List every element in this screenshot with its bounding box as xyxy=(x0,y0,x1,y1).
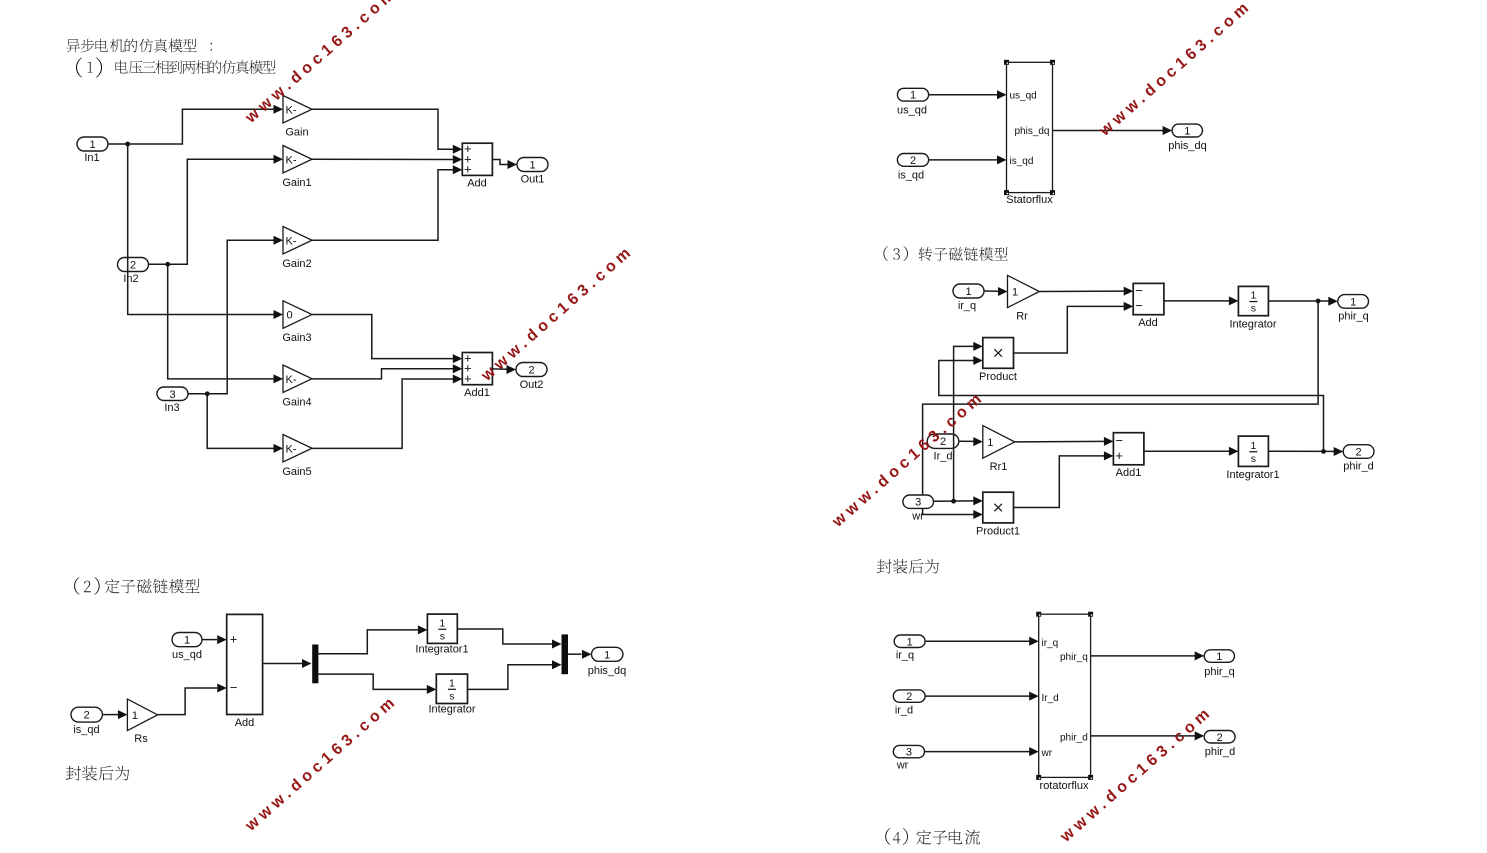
junction In1 xyxy=(125,142,130,147)
svg-text:2: 2 xyxy=(528,365,534,377)
svg-text:Gain4: Gain4 xyxy=(282,397,311,409)
svg-text:2: 2 xyxy=(1217,732,1223,744)
caption after (2) xyxy=(66,766,129,781)
outport Out1 xyxy=(517,158,548,186)
junction phir_d xyxy=(1321,449,1326,454)
wire Gain5 to Add1 xyxy=(312,375,462,449)
watermark bottom left xyxy=(242,692,402,835)
svg-text:Gain: Gain xyxy=(285,127,308,139)
svg-text:−: − xyxy=(230,680,238,695)
svg-text:In1: In1 xyxy=(84,152,99,164)
inport ir_q xyxy=(953,284,984,312)
inport wr xyxy=(903,495,934,523)
svg-text:phir_d: phir_d xyxy=(1060,733,1088,744)
wire In3 to Gain2 xyxy=(188,236,283,394)
svg-text:Integrator1: Integrator1 xyxy=(1226,469,1279,481)
svg-text:wr: wr xyxy=(896,760,909,772)
subsystem Statorflux xyxy=(1004,60,1055,206)
svg-text:Gain3: Gain3 xyxy=(282,332,311,344)
svg-text:us_qd: us_qd xyxy=(172,649,202,661)
svg-text:1: 1 xyxy=(987,437,993,449)
svg-text:Rr1: Rr1 xyxy=(990,461,1008,473)
svg-text:Ir_d: Ir_d xyxy=(1042,693,1059,704)
junction In2 xyxy=(165,262,170,267)
svg-text:1: 1 xyxy=(184,635,190,647)
svg-text:www.doc163.com: www.doc163.com xyxy=(242,692,402,835)
wire Gain1 to Add xyxy=(312,155,462,164)
svg-text:Rr: Rr xyxy=(1016,311,1028,323)
gain Gain5 xyxy=(282,435,312,479)
inport us_qd xyxy=(172,633,202,662)
svg-text:s: s xyxy=(449,690,454,702)
integrator Integrator (stator) xyxy=(428,674,475,715)
caption after (3) xyxy=(877,559,939,574)
svg-text:1: 1 xyxy=(1350,296,1356,308)
svg-text:ir_q: ir_q xyxy=(896,650,914,662)
wire Rr to Add xyxy=(1039,287,1133,296)
sum Add1 (rotor d) xyxy=(1113,433,1144,479)
outport phir_q xyxy=(1338,295,1369,323)
inport ir_q (rotatorflux) xyxy=(894,635,925,662)
gain Gain xyxy=(283,96,312,139)
wire Rs to Add xyxy=(158,684,227,715)
heading (3) xyxy=(883,246,1007,261)
title line 2 xyxy=(76,58,276,78)
wire Add to Demux xyxy=(263,659,312,668)
svg-text:wr: wr xyxy=(1041,748,1053,759)
svg-text:Add: Add xyxy=(235,717,255,729)
svg-text:0: 0 xyxy=(287,310,293,322)
product Product1 xyxy=(976,492,1020,537)
svg-text:+: + xyxy=(1115,448,1123,463)
svg-text:3: 3 xyxy=(169,389,175,401)
wire wr to Product xyxy=(954,342,983,501)
mux bar xyxy=(562,634,569,674)
wire Ir_d to Rr1 xyxy=(959,437,983,446)
svg-text:Out1: Out1 xyxy=(521,174,545,186)
wire Gain4 to Add1 xyxy=(312,364,462,379)
wire rotatorflux to phir_d xyxy=(1091,731,1205,740)
svg-text:Gain2: Gain2 xyxy=(282,258,311,270)
inport In1 xyxy=(77,137,108,164)
svg-text:1: 1 xyxy=(89,139,95,151)
watermark middle right xyxy=(829,388,989,531)
svg-text:1: 1 xyxy=(1216,651,1222,663)
wire In1 to Gain3 xyxy=(128,144,283,319)
svg-text:1: 1 xyxy=(910,90,916,102)
gain Rs xyxy=(127,699,157,745)
wire Gain to Add xyxy=(312,109,462,154)
wire wr to rotatorflux xyxy=(925,747,1039,756)
svg-text:1: 1 xyxy=(449,677,455,689)
wire is_qd to Rs xyxy=(102,710,127,719)
svg-text:+: + xyxy=(464,371,472,386)
sum Add (stator) xyxy=(227,614,263,729)
svg-text:−: − xyxy=(1135,298,1143,313)
svg-text:1: 1 xyxy=(439,617,445,629)
junction In3 xyxy=(205,391,210,396)
wire In1 to Gain xyxy=(108,105,283,144)
wire Statorflux to phis_dq xyxy=(1053,126,1173,135)
sum Add1 xyxy=(462,350,492,399)
product Product xyxy=(979,338,1017,383)
heading (2) xyxy=(74,577,199,595)
svg-text:3: 3 xyxy=(906,747,912,759)
watermark top left xyxy=(242,0,402,127)
svg-text:Rs: Rs xyxy=(134,733,148,745)
inport ir_d (rotatorflux) xyxy=(893,690,925,717)
svg-text:1: 1 xyxy=(1250,440,1256,452)
svg-text:Add: Add xyxy=(1138,317,1158,329)
svg-text:1: 1 xyxy=(132,710,138,722)
svg-text:K-: K- xyxy=(286,374,297,386)
svg-text:1: 1 xyxy=(529,160,535,172)
wire Add1 to Out2 xyxy=(492,365,516,374)
wire Product to Add xyxy=(1014,302,1134,353)
svg-text:Statorflux: Statorflux xyxy=(1006,194,1053,206)
svg-text:1: 1 xyxy=(1250,290,1256,302)
inport is_qd xyxy=(71,707,102,736)
inport Ir_d xyxy=(927,434,959,463)
wire Gain2 to Add xyxy=(312,165,462,240)
integrator Integrator xyxy=(1229,286,1276,330)
wire ir_d to rotatorflux xyxy=(925,692,1039,701)
svg-text:Out2: Out2 xyxy=(520,379,544,391)
watermark top right xyxy=(1096,0,1256,140)
wire In2 to Gain4 xyxy=(168,264,283,383)
svg-text:3: 3 xyxy=(915,497,921,509)
svg-text:2: 2 xyxy=(1356,447,1362,459)
watermark bottom right xyxy=(1057,703,1217,846)
svg-text:2: 2 xyxy=(906,691,912,703)
svg-text:Add: Add xyxy=(467,178,487,190)
svg-text:1: 1 xyxy=(907,636,913,648)
svg-text:wr: wr xyxy=(911,511,924,523)
wire wr to Product1 xyxy=(934,496,983,505)
svg-text:s: s xyxy=(440,630,445,642)
svg-text:is_qd: is_qd xyxy=(73,724,99,736)
heading (4) xyxy=(885,828,980,845)
outport phir_d xyxy=(1343,445,1374,473)
inport wr (rotatorflux) xyxy=(893,745,924,771)
svg-text:2: 2 xyxy=(84,710,90,722)
svg-text:phis_dq: phis_dq xyxy=(1168,140,1207,152)
wire In2 to Gain1 xyxy=(149,155,284,264)
svg-text:1: 1 xyxy=(965,286,971,298)
svg-text:K-: K- xyxy=(286,154,297,166)
svg-text:ir_q: ir_q xyxy=(1042,638,1059,649)
svg-text:www.doc163.com: www.doc163.com xyxy=(1096,0,1256,140)
svg-text:1: 1 xyxy=(1012,287,1018,299)
demux bar xyxy=(312,645,318,684)
wire us_qd to Statorflux xyxy=(929,90,1007,99)
gain Gain3 xyxy=(282,301,312,344)
wire Integrator1 to phir_d xyxy=(1268,447,1343,456)
wire Add1 to Integrator1 xyxy=(1144,447,1239,456)
sum Add xyxy=(462,141,492,189)
wire Add to Out1 xyxy=(492,160,517,170)
svg-text:www.doc163.com: www.doc163.com xyxy=(242,0,402,127)
wire us_qd to Add xyxy=(202,635,227,644)
gain Rr xyxy=(1008,275,1040,322)
wire Integrator1 to Mux xyxy=(457,629,561,649)
wire ir_q to rotatorflux xyxy=(925,637,1039,646)
svg-text:+: + xyxy=(464,162,472,177)
sum Add (rotor q) xyxy=(1133,283,1164,329)
svg-text:Integrator1: Integrator1 xyxy=(415,644,468,656)
svg-text:Gain5: Gain5 xyxy=(282,466,311,478)
title line 1 xyxy=(66,39,212,53)
svg-text:In3: In3 xyxy=(164,402,179,414)
svg-text:In2: In2 xyxy=(123,273,138,285)
wire phir_q feedback to Product1 xyxy=(923,301,1319,519)
wire Gain3 to Add1 xyxy=(312,315,462,364)
wire phir_d feedback to Product xyxy=(939,356,1324,451)
svg-text:us_qd: us_qd xyxy=(897,105,927,117)
svg-text:s: s xyxy=(1251,453,1256,465)
wire In3 to Gain5 xyxy=(207,394,283,453)
svg-text:Ir_d: Ir_d xyxy=(934,451,953,463)
svg-text:phir_q: phir_q xyxy=(1338,311,1369,323)
integrator Integrator1 xyxy=(1226,436,1279,481)
watermark middle xyxy=(478,242,638,385)
svg-text:www.doc163.com: www.doc163.com xyxy=(829,388,989,531)
inport us_qd (statorflux) xyxy=(897,88,929,116)
svg-text:is_qd: is_qd xyxy=(1010,156,1034,167)
junction phir_q xyxy=(1316,299,1321,304)
junction wr xyxy=(951,499,956,504)
svg-text:2: 2 xyxy=(130,260,136,272)
outport phir_d (rotatorflux) xyxy=(1204,731,1235,759)
integrator Integrator1 (stator) xyxy=(415,614,468,655)
wire Demux to Integrator xyxy=(318,674,436,694)
svg-text:1: 1 xyxy=(604,649,610,661)
wire Mux to phis_dq xyxy=(568,650,592,659)
svg-text:+: + xyxy=(230,631,238,646)
svg-text:ir_d: ir_d xyxy=(895,705,913,717)
outport phir_q (rotatorflux) xyxy=(1204,650,1235,678)
svg-text:−: − xyxy=(1135,283,1143,298)
wire Integrator to Mux xyxy=(468,660,562,689)
svg-text:ir_q: ir_q xyxy=(958,300,976,312)
wire rotatorflux to phir_q xyxy=(1091,651,1205,660)
svg-text:phir_d: phir_d xyxy=(1343,461,1374,473)
svg-text:Add1: Add1 xyxy=(464,387,490,399)
inport is_qd (statorflux) xyxy=(897,154,928,182)
svg-text:1: 1 xyxy=(1184,126,1190,138)
outport phis_dq xyxy=(588,647,627,677)
svg-text:Add1: Add1 xyxy=(1116,467,1142,479)
svg-text:Gain1: Gain1 xyxy=(282,177,311,189)
svg-text:phir_q: phir_q xyxy=(1060,652,1088,663)
svg-text:2: 2 xyxy=(910,155,916,167)
wire Rr1 to Add1 xyxy=(1015,437,1114,446)
svg-text:Integrator: Integrator xyxy=(428,704,475,716)
wire Demux to Integrator1 xyxy=(318,625,427,653)
svg-text:www.doc163.com: www.doc163.com xyxy=(478,242,638,385)
wire Integrator to phir_q xyxy=(1268,297,1337,306)
gain Rr1 xyxy=(983,426,1015,473)
svg-text:K-: K- xyxy=(286,104,297,116)
svg-text:rotatorflux: rotatorflux xyxy=(1040,780,1089,792)
svg-text:us_qd: us_qd xyxy=(1010,91,1037,102)
svg-text:phir_d: phir_d xyxy=(1205,746,1236,758)
inport In2 xyxy=(118,258,149,286)
gain Gain2 xyxy=(282,227,312,271)
svg-text:Product1: Product1 xyxy=(976,526,1020,538)
inport In3 xyxy=(157,387,188,414)
svg-text:phis_dq: phis_dq xyxy=(588,665,627,677)
svg-text:K-: K- xyxy=(286,443,297,455)
wire is_qd to Statorflux xyxy=(929,155,1007,164)
svg-text:phir_q: phir_q xyxy=(1204,666,1235,678)
gain Gain1 xyxy=(282,146,312,190)
outport Out2 xyxy=(516,363,547,392)
svg-text:Integrator: Integrator xyxy=(1229,319,1276,331)
outport phis_dq (statorflux) xyxy=(1168,124,1207,152)
gain Gain4 xyxy=(282,365,312,409)
svg-text:phis_dq: phis_dq xyxy=(1014,126,1049,137)
wire Product1 to Add1 xyxy=(1014,451,1114,507)
svg-text:K-: K- xyxy=(286,235,297,247)
wire Add to Integrator xyxy=(1164,296,1239,305)
subsystem rotatorflux xyxy=(1036,612,1093,792)
svg-text:is_qd: is_qd xyxy=(898,170,924,182)
svg-text:s: s xyxy=(1251,303,1256,315)
svg-text:−: − xyxy=(1115,433,1123,448)
svg-text:Product: Product xyxy=(979,371,1017,383)
wire ir_q to Rr xyxy=(984,287,1008,296)
